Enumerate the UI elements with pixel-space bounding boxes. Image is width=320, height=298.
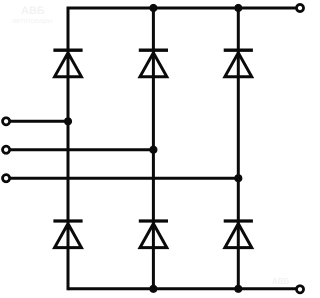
svg-text:АВБ: АВБ — [272, 277, 290, 286]
junction dot: phase B / branch 2 — [149, 146, 157, 154]
wire: top DC+ bus — [68, 7, 297, 10]
watermark top-left — [12, 5, 53, 25]
watermark bottom-right — [272, 277, 290, 286]
wire: phase C input — [10, 177, 238, 180]
diode D4 (lower, branch 1) — [53, 221, 82, 248]
junction dot: bottom bus / branch 2 — [149, 285, 157, 293]
wire: branch 2 vertical — [152, 8, 155, 289]
terminal: DC+ output — [296, 4, 303, 11]
wire: phase B input — [10, 148, 153, 151]
svg-text:автотовары: автотовары — [12, 16, 53, 25]
terminal: phase A — [3, 118, 10, 125]
junction dot: phase C / branch 3 — [234, 174, 242, 182]
diode D2 (lower, branch 3) — [224, 221, 253, 248]
terminal: DC- output — [296, 286, 303, 293]
diode D1 (upper, branch 1) — [53, 50, 82, 76]
junction dot: phase A / branch 1 — [64, 117, 72, 125]
wire: branch 1 vertical — [67, 7, 70, 291]
junction dot: top bus / branch 3 — [234, 4, 242, 12]
diode D5 (upper, branch 3) — [224, 50, 253, 76]
wire: branch 3 vertical — [237, 8, 240, 289]
diode D6 (lower, branch 2) — [139, 221, 168, 248]
wire: phase A input — [10, 120, 68, 123]
diode D3 (upper, branch 2) — [139, 50, 168, 76]
terminal: phase C — [3, 175, 10, 182]
junction dot: top bus / branch 2 — [149, 4, 157, 12]
junction dot: bottom bus / branch 3 — [234, 285, 242, 293]
terminal: phase B — [3, 146, 10, 153]
wire: bottom DC- bus — [68, 287, 297, 290]
